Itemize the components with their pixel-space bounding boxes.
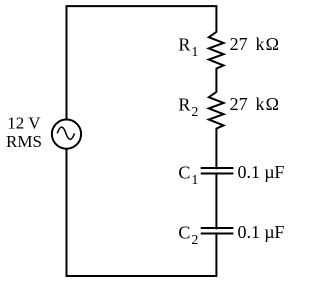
svg-text:12 V: 12 V	[7, 114, 41, 133]
svg-text:R1: R1	[178, 35, 198, 61]
resistor R2	[209, 92, 224, 129]
svg-text:0.1µF: 0.1µF	[238, 162, 285, 182]
capacitor C2	[201, 228, 234, 234]
svg-text:R2: R2	[178, 95, 198, 121]
resistor R1	[209, 32, 224, 69]
svg-text:27kΩ: 27kΩ	[230, 94, 279, 114]
wire loop (outer rectangle)	[67, 6, 217, 276]
svg-text:0.1µF: 0.1µF	[238, 222, 285, 242]
svg-text:C2: C2	[178, 222, 198, 248]
svg-text:27kΩ: 27kΩ	[230, 34, 279, 54]
svg-text:C1: C1	[178, 162, 198, 188]
AC source V1	[52, 120, 81, 149]
svg-text:RMS: RMS	[6, 132, 42, 151]
capacitor C1	[201, 168, 234, 174]
